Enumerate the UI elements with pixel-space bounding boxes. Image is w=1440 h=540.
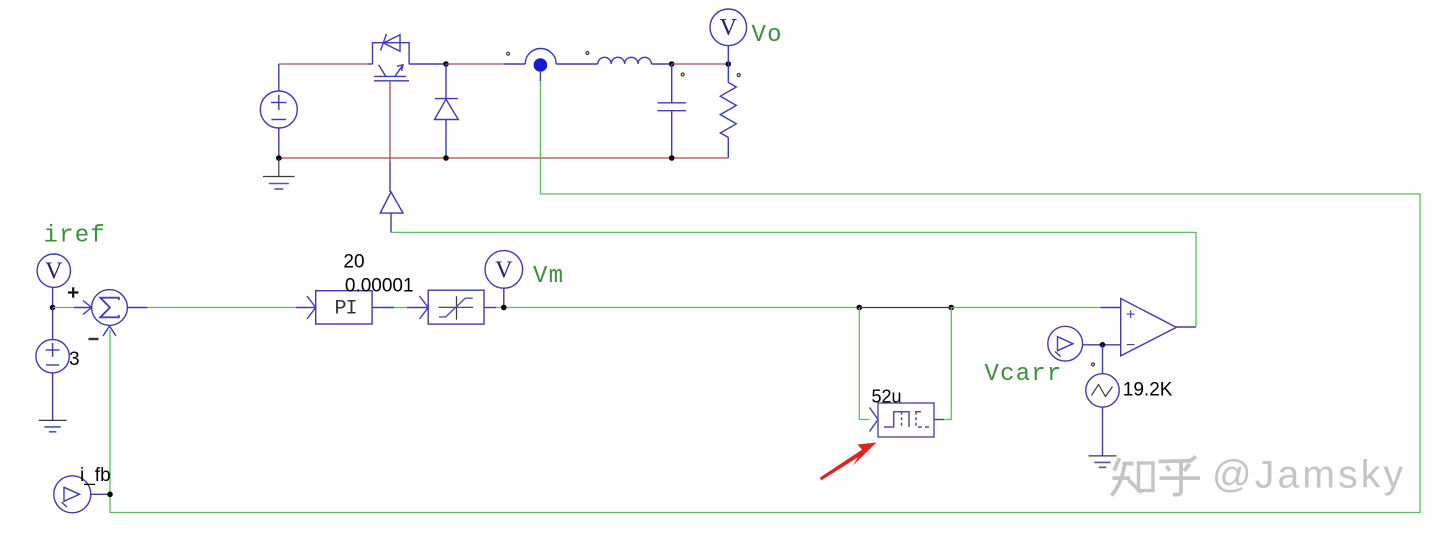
diode D1 (freewheeling) xyxy=(435,64,459,158)
wire (green, to summer) xyxy=(53,307,74,309)
svg-text:Vo: Vo xyxy=(752,22,783,49)
svg-text:19.2K: 19.2K xyxy=(1123,380,1173,401)
limiter block xyxy=(428,290,484,324)
gating block (triangle) xyxy=(380,192,403,232)
svg-text:20: 20 xyxy=(343,252,364,273)
svg-text:V: V xyxy=(720,15,738,41)
svg-text:iref: iref xyxy=(44,223,106,250)
summer S1 xyxy=(92,290,128,326)
pin marker o xyxy=(507,52,510,55)
svg-text:52u: 52u xyxy=(872,387,902,407)
wire (green, left branch down) xyxy=(859,308,869,420)
wire stub (sensor to minus input) xyxy=(1083,344,1121,346)
delay block output stub xyxy=(934,419,944,421)
node dot (minus input) xyxy=(1100,342,1106,348)
wire current feedback (green loop) xyxy=(110,81,1420,513)
wire (node to carrier source) xyxy=(1102,345,1104,374)
sensor Vcarr xyxy=(1048,326,1083,361)
svg-text:+: + xyxy=(1126,307,1135,324)
svg-text:@Jamsky: @Jamsky xyxy=(1212,454,1406,497)
ground (reference source) xyxy=(39,420,67,431)
limiter output stub xyxy=(484,307,496,309)
gate lead (blue) xyxy=(389,161,391,192)
comparator U1 xyxy=(1121,299,1177,356)
pin marker o xyxy=(1092,363,1095,366)
dc source Vdc xyxy=(260,64,297,158)
wire bottom rail (red) xyxy=(279,157,729,159)
label plus xyxy=(68,287,79,297)
current sensor CT (arc + blue dot) xyxy=(504,49,598,82)
svg-text:−: − xyxy=(1126,337,1135,354)
ground (carrier) xyxy=(1089,456,1117,467)
carrier source (triangle wave) xyxy=(1086,374,1119,456)
delay block 52u xyxy=(878,403,934,437)
inductor L1 xyxy=(598,57,652,64)
transistor IGBT with antiparallel diode xyxy=(373,34,410,81)
label minus xyxy=(89,338,99,340)
node dot (52u branch right) xyxy=(949,305,955,311)
svg-text:PI: PI xyxy=(335,298,357,321)
capacitor C1 xyxy=(658,64,686,158)
voltmeter Vm xyxy=(485,251,523,308)
resistor R1 (load) xyxy=(720,64,736,158)
annotation red arrow xyxy=(820,443,877,481)
wire PI to limiter xyxy=(372,296,428,319)
node dot xyxy=(107,492,113,498)
wire (red, output node to load) xyxy=(672,63,729,65)
pin marker o xyxy=(737,74,740,77)
arrow into delay block xyxy=(870,408,879,432)
wire (green, right branch down) xyxy=(944,308,951,420)
voltmeter iref xyxy=(37,254,70,307)
arrow into summer bottom xyxy=(103,326,116,336)
node dot output xyxy=(669,61,675,67)
node dot xyxy=(276,155,282,161)
svg-text:Vcarr: Vcarr xyxy=(985,361,1063,388)
ground (power) xyxy=(263,158,295,189)
wire stub (dark blue into comparator) xyxy=(1100,307,1120,309)
node dot xyxy=(443,61,449,67)
pin marker o xyxy=(586,52,589,55)
PI block xyxy=(316,291,372,324)
svg-text:i_fb: i_fb xyxy=(80,465,111,486)
wire (green, to comparator plus) xyxy=(951,307,1100,309)
svg-text:Vm: Vm xyxy=(533,263,564,290)
wire (dark, between branch nodes) xyxy=(859,307,951,309)
sensor i_fb xyxy=(54,476,110,513)
watermark zhihu logo strokes xyxy=(1112,457,1201,496)
node dot xyxy=(50,305,56,311)
wire gate signal (green, comparator to gate) xyxy=(391,232,1196,326)
wire stub (blue, IGBT to diode node) xyxy=(409,63,446,65)
svg-text:3: 3 xyxy=(69,349,80,370)
node dot xyxy=(501,305,507,311)
wire stub (blue, inductor to output node) xyxy=(651,63,671,65)
wire stub + arrow into PI xyxy=(296,296,316,319)
wire (green, limiter to comparator) xyxy=(496,307,859,309)
wire (green, summer to PI) xyxy=(148,307,296,309)
summer output stub (blue) xyxy=(127,307,147,309)
voltmeter Vo xyxy=(710,9,747,64)
pin marker o xyxy=(681,73,684,76)
node dot xyxy=(669,155,675,161)
gate lead (red) xyxy=(389,81,391,161)
node dot (52u branch left) xyxy=(857,305,863,311)
wire (red, diode node to current sensor) xyxy=(446,63,504,65)
svg-text:V: V xyxy=(45,259,63,285)
node dot xyxy=(443,155,449,161)
wire stub (blue, into IGBT) xyxy=(368,63,373,65)
wire top rail (red, source to IGBT) xyxy=(279,63,368,65)
svg-text:V: V xyxy=(495,258,513,284)
wire comparator output stub (blue) xyxy=(1176,326,1196,328)
dc source 3 (reference) xyxy=(36,308,69,421)
node dot load top xyxy=(726,61,732,67)
svg-text:0.00001: 0.00001 xyxy=(345,276,414,297)
arrow into summer xyxy=(74,301,92,315)
